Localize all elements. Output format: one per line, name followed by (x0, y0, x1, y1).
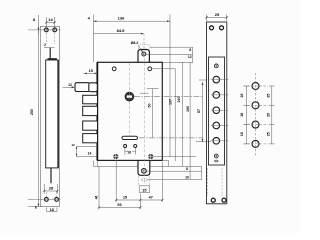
plate bottom circle tick (196, 141, 211, 143)
svg-text:25: 25 (267, 113, 271, 117)
plate bottom screw right (222, 198, 226, 202)
svg-text:160: 160 (177, 97, 181, 103)
bolt head bar (side) (47, 58, 57, 60)
deadbolt tooth 3 (83, 121, 98, 130)
svg-text:12: 12 (68, 83, 72, 87)
plate bolt hole 2 (213, 92, 220, 99)
pattern hole 4 (252, 140, 259, 147)
leader to tab circle (138, 45, 143, 52)
leader from ghost top (150, 46, 193, 48)
latch bolt bar (75, 83, 89, 92)
svg-text:50: 50 (148, 104, 152, 108)
dim 4 extension line (92, 15, 94, 63)
svg-text:18: 18 (50, 208, 54, 212)
bottom screw boss right (148, 154, 153, 159)
leader connector vertical (201, 166, 203, 179)
screw centerline dashes top (46, 33, 56, 197)
gauge bracket (125, 148, 135, 155)
svg-text:250: 250 (30, 109, 34, 115)
body hole top-right (148, 67, 152, 71)
boxed label 15 (139, 186, 150, 193)
svg-text:53: 53 (117, 203, 121, 207)
tab centerline dashed (143, 34, 145, 49)
top tab ghost outline dashed (139, 45, 150, 49)
long dim line through tab right part (150, 165, 202, 167)
key gauge hole left (124, 145, 127, 148)
plate bolt hole 4 (213, 122, 220, 129)
dim 136 line (93, 20, 170, 22)
svg-text:136: 136 (118, 16, 125, 21)
body bottom edge extension with jog (162, 160, 168, 166)
lock case right edge shadow (57, 60, 59, 168)
oval leader (148, 179, 202, 181)
svg-text:28: 28 (49, 186, 54, 191)
dim 14 line above screws (46, 17, 54, 31)
svg-text:10: 10 (185, 176, 189, 180)
latch dim arrow (63, 86, 74, 88)
dim line 5 arrowheads (202, 82, 204, 142)
svg-text:18: 18 (240, 113, 244, 117)
plate bolt hole 3 (213, 107, 220, 114)
svg-text:46: 46 (94, 196, 98, 200)
hub leader right (134, 96, 203, 98)
long dim line through tab left part (93, 165, 137, 167)
faceplate outer rect (side view) (40, 26, 59, 206)
key gauge hole right (134, 145, 137, 148)
svg-text:15: 15 (142, 188, 146, 192)
pattern hole 3 (252, 121, 259, 128)
svg-text:15: 15 (89, 69, 93, 73)
svg-text:12: 12 (188, 55, 192, 59)
hub vertical centerline (129, 63, 131, 137)
vertical dim line 2 (174, 69, 176, 161)
top tab circle (142, 52, 146, 56)
tooth pitch dim lines (76, 147, 97, 157)
svg-text:84.5: 84.5 (117, 28, 126, 33)
overall height dimension line (37, 26, 39, 206)
keyhole slot (122, 136, 138, 139)
lock body outline (98, 62, 163, 160)
bolt stem top (side) (49, 48, 51, 59)
plate bottom screw left (211, 198, 215, 202)
bottom tab circle (142, 169, 147, 174)
pattern right dim line (271, 86, 273, 144)
plate bolt hole 1 (213, 76, 220, 83)
follower hub slot (127, 95, 132, 97)
bottom oval dashed (141, 178, 147, 181)
top screws centerline (28, 29, 61, 31)
svg-text:8: 8 (189, 48, 191, 52)
body hole top-left (112, 67, 116, 71)
tab centerline vertical dim (143, 58, 145, 184)
dim 15 arrowheads (84, 73, 97, 75)
follower hub (125, 92, 134, 101)
top cylinder tab (138, 50, 149, 63)
deadbolt tooth 2 (83, 106, 98, 115)
right dim ticks (269, 86, 275, 144)
plate top screw right (220, 26, 224, 30)
leader from tab circle (146, 53, 193, 55)
svg-text:137: 137 (169, 99, 173, 105)
bottom screw hole right (55, 198, 59, 202)
faceplate edge extensions down (92, 161, 94, 167)
tab edge dashed extensions (138, 176, 150, 185)
bottom tab circle dot (143, 170, 145, 172)
deadbolt tooth 1 (83, 95, 98, 104)
bottom screw boss left cross (112, 153, 120, 160)
bottom stem (side) (50, 168, 52, 183)
faceplate front outline (207, 22, 227, 204)
dim 84.5 arrowhead (141, 33, 144, 35)
left dim ticks (244, 86, 250, 144)
svg-text:87: 87 (197, 109, 201, 113)
hub-keyhole inner dim tick (147, 88, 159, 90)
plate inner window (209, 57, 225, 165)
body top edge extension (162, 61, 193, 63)
top screw hole left (44, 28, 48, 32)
svg-text:25: 25 (267, 94, 271, 98)
vertical dim line 5 hub-keyhole (202, 82, 204, 142)
vertical dim line 3 (181, 62, 183, 166)
svg-text:18: 18 (240, 132, 244, 136)
svg-text:190: 190 (186, 106, 190, 112)
bottom screw hole left (45, 198, 49, 202)
svg-text:18: 18 (240, 94, 244, 98)
bottom dim line A (116, 199, 162, 201)
svg-text:25: 25 (215, 12, 220, 17)
bolt hole tick marks (211, 80, 229, 141)
svg-text:2: 2 (44, 43, 46, 47)
tab dim top tick (140, 92, 148, 94)
bottom tab (138, 161, 150, 175)
svg-text:8: 8 (186, 167, 188, 171)
tab circle leader (146, 170, 201, 172)
top screw hole right (53, 28, 57, 32)
svg-text:12: 12 (71, 143, 75, 147)
pattern hole 1 (252, 83, 259, 90)
svg-text:8: 8 (35, 206, 37, 210)
small dim connector vertical (192, 47, 194, 62)
keyhole leader right (139, 137, 203, 139)
plate top circle tick (199, 79, 207, 81)
height dim arrowheads (38, 26, 40, 206)
bottom dims ext lines (99, 160, 162, 210)
bottom left tick line (28, 206, 42, 208)
svg-text:Ø8.2: Ø8.2 (131, 41, 139, 45)
vertical dim line 1 (169, 15, 171, 158)
dimension end ticks (43, 16, 228, 208)
svg-text:14: 14 (88, 152, 92, 156)
lock case side profile rect (46, 60, 58, 168)
plate pin hole bottom (214, 154, 218, 158)
plate top screw left (210, 26, 214, 30)
latch arrowhead (72, 86, 75, 88)
bottom screw boss left (113, 154, 118, 159)
leader from top-right hole (152, 68, 175, 70)
svg-text:15: 15 (123, 196, 127, 200)
latch bolt head (89, 83, 98, 92)
bottom dim line B (99, 206, 140, 208)
pattern hole 2 (252, 102, 259, 109)
svg-text:14: 14 (48, 17, 53, 22)
dim 15 top-left line (84, 72, 98, 74)
plate bolt hole 5 (213, 138, 220, 145)
top tab circle center dot (143, 53, 145, 55)
bottom screws centerline (28, 198, 61, 200)
svg-text:25: 25 (267, 132, 271, 136)
hub-keyhole inner dim line (152, 89, 154, 138)
pattern left dim line (246, 86, 248, 144)
plate pin hole top (214, 64, 218, 68)
pattern crosshairs (244, 73, 269, 157)
faceplate edge-on thick line (96, 62, 98, 160)
plate lower dashed projections (207, 168, 222, 196)
leader arrowhead (141, 50, 143, 53)
vertical dim line 4 (189, 62, 191, 179)
dim 84.5 line (93, 33, 143, 35)
dim 8 extension tick (37, 15, 39, 34)
tooth pitch arrowheads (76, 147, 78, 157)
plate small oval (215, 160, 218, 162)
dim 28 ext lines (44, 184, 57, 194)
dim 2 line (44, 47, 55, 49)
dim 136 end ticks (93, 20, 170, 22)
plate top dim line (207, 15, 227, 22)
svg-text:47: 47 (149, 195, 153, 199)
svg-text:16: 16 (127, 150, 131, 154)
deadbolt tooth 4 (83, 134, 98, 143)
bottom screw boss right cross (147, 153, 155, 160)
bottom bracket dim 18 (47, 207, 57, 211)
screws level extension right (153, 156, 196, 158)
